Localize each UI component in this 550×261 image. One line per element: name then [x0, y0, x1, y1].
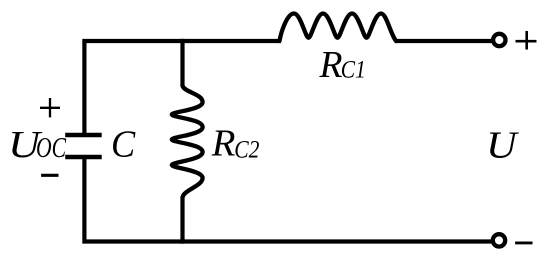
plus sign near capacitor [40, 98, 60, 117]
wire middle branch lower [180, 197, 184, 244]
label UOC [8, 124, 67, 166]
svg-text:C1: C1 [341, 56, 366, 83]
svg-text:OC: OC [36, 133, 67, 164]
resistor RC2 [172, 86, 203, 198]
wire top-right horizontal [395, 39, 492, 43]
label RC2 [211, 123, 260, 165]
minus sign near capacitor [41, 174, 58, 177]
svg-text:U: U [486, 125, 520, 167]
capacitor C bottom plate [65, 155, 102, 160]
resistor RC1 [280, 14, 397, 42]
wire bottom L (left lower vertical + bottom horizontal) [84, 159, 491, 242]
svg-text:R: R [319, 44, 343, 86]
minus sign at bottom-right terminal [515, 241, 532, 244]
svg-text:C2: C2 [234, 136, 259, 163]
capacitor C top plate [65, 133, 102, 138]
terminal top-right [493, 34, 505, 46]
svg-text:R: R [211, 123, 236, 165]
wire middle branch upper [180, 39, 184, 86]
label RC1 [319, 44, 366, 86]
svg-text:C: C [111, 124, 136, 166]
plus sign at top-right terminal [516, 31, 537, 50]
terminal bottom-right [493, 234, 505, 246]
wire top-left L (left upper vertical + top horizontal) [84, 41, 281, 133]
